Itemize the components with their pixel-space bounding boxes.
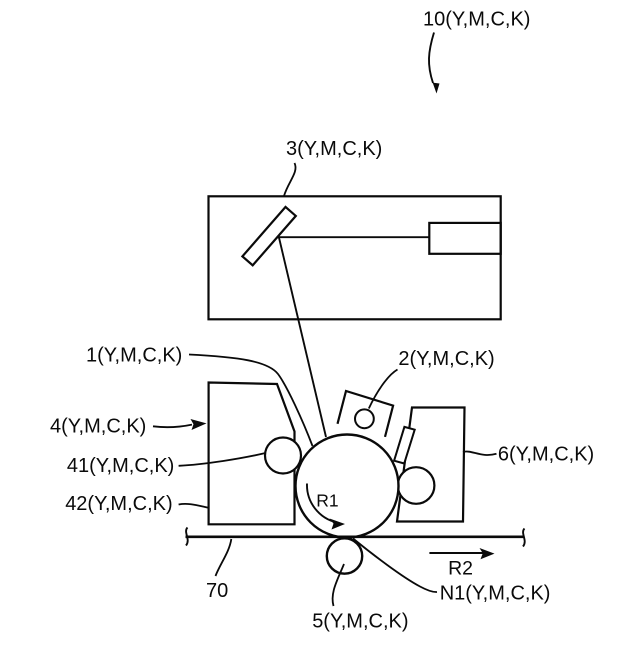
svg-text:2(Y,M,C,K): 2(Y,M,C,K) <box>398 348 494 370</box>
svg-text:1(Y,M,C,K): 1(Y,M,C,K) <box>86 345 182 367</box>
svg-text:70: 70 <box>206 580 228 602</box>
svg-text:3(Y,M,C,K): 3(Y,M,C,K) <box>286 138 382 160</box>
svg-text:41(Y,M,C,K): 41(Y,M,C,K) <box>67 455 174 477</box>
svg-text:42(Y,M,C,K): 42(Y,M,C,K) <box>65 493 172 515</box>
svg-text:R2: R2 <box>448 557 473 579</box>
svg-text:6(Y,M,C,K): 6(Y,M,C,K) <box>498 444 594 466</box>
svg-text:R1: R1 <box>316 490 338 510</box>
svg-text:N1(Y,M,C,K): N1(Y,M,C,K) <box>440 583 551 605</box>
svg-text:4(Y,M,C,K): 4(Y,M,C,K) <box>50 416 146 438</box>
svg-text:10(Y,M,C,K): 10(Y,M,C,K) <box>423 9 530 31</box>
svg-text:5(Y,M,C,K): 5(Y,M,C,K) <box>312 611 408 633</box>
